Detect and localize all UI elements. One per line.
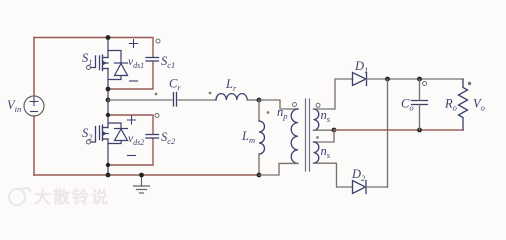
capacitor Sc1 xyxy=(146,58,159,62)
gate terminal circle S2 xyxy=(87,140,91,144)
inductor Lm xyxy=(259,121,265,154)
wire D1-D2 vertical xyxy=(387,79,389,187)
wire Lr to node A xyxy=(247,99,259,101)
wire Co leads xyxy=(419,79,421,130)
resistor Ro xyxy=(459,79,468,130)
node ground xyxy=(139,173,144,178)
node midpoint xyxy=(106,98,111,103)
svg-text:D2: D2 xyxy=(351,167,366,183)
source Vin xyxy=(24,96,44,116)
node Lm bottom xyxy=(257,173,262,178)
svg-text:Sc1: Sc1 xyxy=(161,54,175,70)
minus vds1 xyxy=(130,80,138,82)
wire ns top lead to D1 xyxy=(314,79,353,109)
capacitor Cr xyxy=(174,93,177,107)
svg-text:大散铃说: 大散铃说 xyxy=(34,187,110,207)
wire mid rail Cr to Lr xyxy=(178,99,216,101)
transformer core xyxy=(306,99,310,171)
wire center tap xyxy=(314,129,335,131)
svg-text:Ro: Ro xyxy=(444,97,457,113)
wire center tap step xyxy=(314,130,335,142)
plus vds2 xyxy=(128,116,136,124)
dot mark ns bottom xyxy=(316,136,319,139)
winding ns bottom xyxy=(314,142,319,163)
wire top rail xyxy=(34,37,108,39)
transistor S2 drain/source line xyxy=(107,100,109,175)
svg-text:ns: ns xyxy=(321,144,331,160)
node center tap xyxy=(332,128,337,133)
ring Co xyxy=(423,82,427,86)
transistor S1 mosfet xyxy=(91,55,109,71)
wire ns bottom lead to D2 xyxy=(314,163,353,187)
watermark logo xyxy=(9,188,30,205)
svg-text:np: np xyxy=(277,105,288,121)
node A xyxy=(257,98,262,103)
winding ns top xyxy=(314,109,319,130)
svg-text:vds1: vds1 xyxy=(128,56,144,70)
wire D1 cathode to output xyxy=(367,78,464,80)
ring Ro xyxy=(468,82,471,85)
winding np xyxy=(291,109,298,163)
svg-text:ns: ns xyxy=(321,108,331,124)
svg-text:Lr: Lr xyxy=(225,77,237,93)
node box2 bottom xyxy=(106,163,110,167)
box vds1 (red measurement/snubber loop) xyxy=(108,38,153,90)
wire left vertical bottom xyxy=(33,116,35,175)
svg-text:Cr: Cr xyxy=(169,77,181,93)
terminal ring box2 xyxy=(155,114,159,118)
svg-text:Vin: Vin xyxy=(7,98,21,114)
wire output bottom rail xyxy=(334,129,463,131)
wire left vertical top xyxy=(33,38,35,97)
node Co top xyxy=(417,77,422,82)
ring ns top xyxy=(316,103,320,107)
plus vds1 xyxy=(130,40,138,48)
wire mid rail left xyxy=(108,99,172,101)
wire D2 cathode xyxy=(366,186,388,188)
wire Lm bottom lead xyxy=(258,154,260,175)
dot mark Lm xyxy=(267,111,270,114)
transistor S1 drain/source line xyxy=(107,38,109,101)
node Co bottom xyxy=(417,128,422,133)
capacitor Sc2 xyxy=(146,135,159,139)
svg-text:Co: Co xyxy=(401,97,414,113)
svg-text:Vo: Vo xyxy=(473,97,485,113)
capacitor Co xyxy=(412,101,428,105)
node box2 top xyxy=(106,113,110,117)
svg-text:S2: S2 xyxy=(82,126,93,142)
box vds2 xyxy=(108,115,153,165)
node S1 source / box bottom xyxy=(106,87,111,92)
transistor S2 mosfet xyxy=(91,125,109,142)
body diode S1 xyxy=(108,51,128,80)
diode D2 xyxy=(353,181,367,194)
minus vds2 xyxy=(128,155,136,157)
svg-text:vds2: vds2 xyxy=(128,133,144,147)
dot mark near Cr xyxy=(155,93,158,96)
body diode S2 xyxy=(108,123,128,144)
wire bottom rail xyxy=(34,174,259,176)
gate terminal circle S1 xyxy=(87,66,91,70)
ring np xyxy=(293,103,297,107)
node top rail / drain xyxy=(106,35,111,40)
inductor Lr xyxy=(216,94,247,100)
svg-text:S1: S1 xyxy=(82,51,93,67)
svg-text:D1: D1 xyxy=(354,59,368,75)
node bottom rail S2 xyxy=(106,173,111,178)
node D1/D2 junction xyxy=(385,77,390,82)
terminal ring box1 xyxy=(156,39,160,43)
dot mark near Lr xyxy=(209,92,212,95)
ground xyxy=(134,175,150,193)
wire np bottom lead xyxy=(259,163,298,175)
wire node A to np top xyxy=(259,100,298,109)
diode D1 xyxy=(353,73,367,86)
svg-text:Lm: Lm xyxy=(241,129,255,145)
svg-text:Sc2: Sc2 xyxy=(161,130,176,146)
wire Lm top lead xyxy=(258,100,260,121)
